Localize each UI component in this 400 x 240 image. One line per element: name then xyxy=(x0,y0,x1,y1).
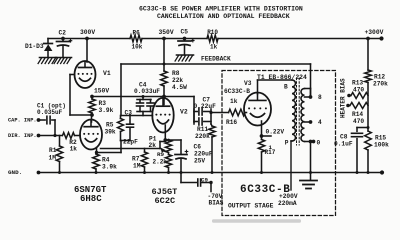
svg-text:P: P xyxy=(285,140,289,147)
svg-text:B: B xyxy=(284,83,288,90)
svg-text:0.035uF: 0.035uF xyxy=(37,109,63,116)
svg-text:22k: 22k xyxy=(172,77,183,84)
svg-text:270k: 270k xyxy=(373,80,388,87)
svg-text:6C2C: 6C2C xyxy=(155,196,176,206)
svg-text:R5: R5 xyxy=(106,121,114,128)
svg-text:R10: R10 xyxy=(207,29,218,36)
svg-text:R14: R14 xyxy=(352,111,363,118)
svg-text:470: 470 xyxy=(353,86,364,93)
svg-text:6C33C-B SE POWER AMPLIFIER WIT: 6C33C-B SE POWER AMPLIFIER WITH DISTORTI… xyxy=(139,6,303,13)
svg-text:R13: R13 xyxy=(352,79,363,86)
svg-text:C8: C8 xyxy=(340,133,348,140)
svg-text:4: 4 xyxy=(318,119,322,126)
svg-text:0.1uF: 0.1uF xyxy=(334,140,353,147)
svg-text:R11: R11 xyxy=(197,126,208,133)
svg-text:1M: 1M xyxy=(49,154,57,161)
svg-text:R12: R12 xyxy=(374,73,385,80)
svg-text:C6: C6 xyxy=(194,144,202,151)
svg-text:R1: R1 xyxy=(49,147,57,154)
svg-text:10k: 10k xyxy=(132,43,143,50)
svg-text:150V: 150V xyxy=(94,88,109,95)
svg-text:R4: R4 xyxy=(102,156,110,163)
svg-text:3.9k: 3.9k xyxy=(99,107,114,114)
svg-text:6H8C: 6H8C xyxy=(80,194,102,204)
svg-text:3.9k: 3.9k xyxy=(102,163,117,170)
svg-text:R15: R15 xyxy=(375,134,386,141)
svg-text:R9: R9 xyxy=(157,151,165,158)
svg-text:0.22V: 0.22V xyxy=(266,129,285,136)
svg-text:4.5W: 4.5W xyxy=(172,84,187,91)
svg-text:6C33C-B: 6C33C-B xyxy=(224,88,250,95)
svg-text:GND.: GND. xyxy=(8,169,22,176)
svg-text:R8: R8 xyxy=(172,70,180,77)
svg-text:DIR. INP.: DIR. INP. xyxy=(8,133,37,139)
svg-text:C2: C2 xyxy=(59,29,67,36)
svg-text:8: 8 xyxy=(318,94,322,101)
svg-text:39k: 39k xyxy=(105,128,116,135)
svg-text:V2: V2 xyxy=(180,109,188,116)
svg-text:0.22uF: 0.22uF xyxy=(194,103,217,110)
svg-text:1k: 1k xyxy=(230,98,238,105)
svg-text:C3: C3 xyxy=(125,109,133,116)
svg-text:V1: V1 xyxy=(103,70,111,77)
svg-text:OUTPUT STAGE: OUTPUT STAGE xyxy=(228,203,274,210)
svg-text:FEEDBACK: FEEDBACK xyxy=(201,56,231,63)
svg-text:220mA: 220mA xyxy=(278,200,297,207)
svg-text:R6: R6 xyxy=(133,29,141,36)
svg-text:22pF: 22pF xyxy=(123,138,138,145)
svg-text:R17: R17 xyxy=(265,149,276,156)
svg-text:C5: C5 xyxy=(181,29,189,36)
svg-text:2.2k: 2.2k xyxy=(153,158,168,165)
svg-text:BIAS: BIAS xyxy=(209,200,224,207)
svg-text:25V: 25V xyxy=(194,157,205,164)
svg-text:2k: 2k xyxy=(149,142,157,149)
svg-text:T1 EB-866/224: T1 EB-866/224 xyxy=(257,74,307,81)
svg-text:0.033uF: 0.033uF xyxy=(134,88,160,95)
svg-text:C9: C9 xyxy=(201,176,208,183)
svg-text:CAP. INP.: CAP. INP. xyxy=(8,117,37,123)
svg-text:1M: 1M xyxy=(133,162,141,169)
svg-text:470: 470 xyxy=(353,118,364,125)
svg-text:R16: R16 xyxy=(226,119,237,126)
svg-text:300V: 300V xyxy=(80,29,95,36)
svg-text:D1-D3: D1-D3 xyxy=(25,43,44,50)
svg-text:HEATER BIAS: HEATER BIAS xyxy=(340,78,347,118)
svg-text:220k: 220k xyxy=(195,133,210,140)
svg-text:R3: R3 xyxy=(99,100,107,107)
svg-text:CANCELLATION AND OPTIONAL FEED: CANCELLATION AND OPTIONAL FEEDBACK xyxy=(157,13,290,20)
svg-text:100k: 100k xyxy=(374,141,389,148)
svg-text:1k: 1k xyxy=(210,44,218,51)
svg-text:+300V: +300V xyxy=(365,29,384,36)
svg-text:350V: 350V xyxy=(159,29,174,36)
svg-text:1k: 1k xyxy=(70,146,78,153)
svg-text:0: 0 xyxy=(317,139,321,146)
svg-text:R7: R7 xyxy=(132,155,140,162)
svg-text:V3: V3 xyxy=(244,80,252,87)
